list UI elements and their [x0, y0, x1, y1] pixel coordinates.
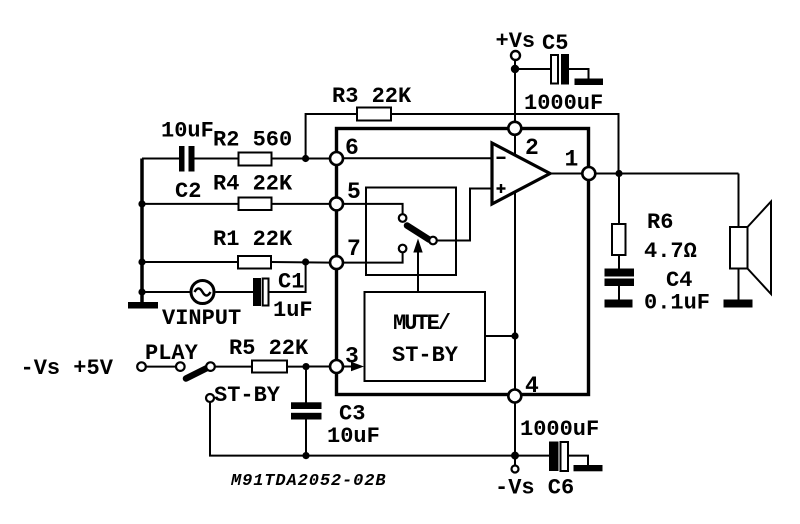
switch blade: [407, 226, 429, 240]
terminal +Vs: [511, 51, 520, 60]
node: R5/C3 junction: [302, 363, 309, 370]
arrow: pin 3 into mute box: [343, 366, 356, 368]
node: R4 tap on input bus: [138, 200, 145, 207]
pin 1: [582, 167, 595, 180]
wire: VINPUT to C1: [216, 291, 254, 293]
svg-text:+Vs: +Vs: [496, 29, 536, 54]
svg-text:ST-BY: ST-BY: [214, 383, 281, 408]
wire: to C5: [515, 68, 551, 70]
wire: R3 to output node: [391, 114, 619, 174]
svg-text:1uF: 1uF: [273, 298, 313, 323]
terminal -Vs +5V: [137, 362, 146, 371]
svg-text:PLAY: PLAY: [145, 341, 199, 366]
svg-text:R1 22K: R1 22K: [213, 227, 293, 252]
wire: R6 to C4: [618, 255, 620, 269]
wire: C4 to ground: [618, 286, 620, 300]
resistor R1 22K: [238, 256, 271, 269]
svg-text:C1: C1: [278, 270, 304, 295]
resistor R4 22K: [239, 198, 272, 211]
svg-text:C5: C5: [542, 31, 568, 56]
capacitor C1 1uF: [263, 279, 269, 306]
wire: left input bus vertical: [140, 159, 144, 303]
switch upper contact: [399, 214, 407, 222]
wire: R4 to pin 5: [272, 203, 332, 205]
svg-text:6: 6: [345, 135, 359, 161]
wire: bus to VINPUT: [142, 291, 191, 293]
wire: lower contact to pin 7: [343, 253, 403, 263]
switch PLAY blade: [186, 368, 208, 379]
wire: op-amp output to pin 1: [550, 173, 583, 175]
svg-text:5: 5: [347, 179, 361, 205]
wire: pin 1 to speaker: [595, 173, 739, 175]
wire: C1 branch: [269, 262, 306, 292]
svg-text:4: 4: [525, 373, 539, 399]
capacitor C2 10uF: [179, 146, 185, 172]
switch PLAY pivot contact: [176, 362, 185, 371]
wire: +Vs stem: [514, 60, 516, 70]
wire: R5 junction to pin 3: [306, 366, 331, 368]
svg-text:10uF: 10uF: [327, 424, 380, 449]
wire: ST-BY down and bottom rail: [210, 402, 549, 456]
wire: C3 to bottom rail: [305, 420, 307, 456]
resistor R3 22K: [357, 108, 391, 121]
wire: bus to R1: [142, 261, 238, 263]
node: R2/R3/pin6 junction: [302, 155, 309, 162]
ground (C6): [574, 465, 603, 471]
switch box: [366, 188, 456, 276]
arrow: mute control to switch: [417, 251, 419, 292]
svg-text:R4 22K: R4 22K: [213, 172, 293, 197]
MUTE/ST-BY box: [365, 292, 486, 381]
svg-text:C2: C2: [175, 179, 201, 204]
capacitor C6 1000uF: [549, 442, 559, 472]
pin 3: [330, 360, 343, 373]
wire: R3 branch up: [306, 114, 357, 159]
node: VINPUT tap on bus: [138, 288, 145, 295]
svg-text:2: 2: [525, 135, 539, 161]
resistor R5 22K: [252, 361, 287, 373]
svg-text:-Vs C6: -Vs C6: [495, 476, 574, 501]
pin 7: [330, 256, 343, 269]
source VINPUT: [191, 281, 214, 304]
node: R6 junction: [615, 170, 622, 177]
svg-text:M91TDA2052-02B: M91TDA2052-02B: [230, 472, 386, 491]
svg-text:C4: C4: [666, 268, 692, 293]
svg-text:-Vs +5V: -Vs +5V: [21, 356, 114, 381]
wire: switch to R5: [215, 366, 252, 368]
wire: C2 to R2: [195, 158, 239, 160]
node: R1 tap on input bus: [138, 258, 145, 265]
resistor R6 4.7ohm: [612, 224, 626, 255]
svg-text:VINPUT: VINPUT: [162, 306, 241, 331]
terminal ST-BY: [206, 394, 214, 402]
wire: blade to non-inverting input: [437, 189, 492, 241]
resistor R2 560: [239, 153, 272, 166]
svg-text:1: 1: [565, 146, 579, 172]
node: mute box tap: [511, 332, 518, 339]
wire: pin 2 down (above op-amp): [514, 134, 516, 156]
wire: speaker to ground: [738, 269, 740, 301]
IC box U1 TDA2052: [337, 129, 589, 395]
speaker LS1: [730, 227, 748, 269]
wire: mute box to rail: [485, 335, 515, 337]
svg-text:ST-BY: ST-BY: [392, 343, 459, 368]
wire: R5 to pin 3: [287, 366, 306, 368]
capacitor C3 10uF: [291, 402, 322, 409]
svg-text:7: 7: [347, 236, 361, 262]
switch blade pivot: [429, 237, 437, 245]
wire: pin 2 down to pin 4: [514, 192, 516, 391]
ground (input): [128, 302, 158, 309]
svg-text:MUTE/: MUTE/: [393, 311, 451, 336]
wire: C2 left: [142, 158, 179, 160]
svg-text:R6: R6: [647, 210, 673, 235]
wire: -Vs stem: [514, 456, 516, 465]
svg-text:R2 560: R2 560: [213, 128, 292, 153]
pin 5: [330, 197, 343, 210]
wire: down to speaker: [738, 174, 740, 228]
node: +Vs / C5 junction: [511, 65, 519, 73]
wire: pin 6 to inverting input: [343, 157, 492, 159]
node: C3 bottom junction: [302, 452, 309, 459]
wire: bus to R4: [142, 203, 239, 205]
op-amp plus sign: [497, 187, 506, 189]
terminal -Vs: [512, 466, 519, 473]
wire: terminal to switch pivot: [146, 366, 176, 368]
ground (speaker): [724, 300, 753, 308]
svg-text:3: 3: [345, 343, 359, 369]
svg-text:10uF: 10uF: [161, 119, 214, 144]
svg-text:1000uF: 1000uF: [520, 417, 599, 442]
wire: +Vs down to pin 2: [514, 69, 516, 123]
wire: C5 to ground: [569, 69, 589, 79]
node: R1/C1/pin7 junction: [302, 258, 309, 265]
capacitor C5 1000uF: [551, 55, 558, 84]
op-amp A1: [492, 143, 550, 204]
pin 2: [508, 122, 521, 135]
op-amp minus sign: [497, 157, 506, 159]
svg-text:4.7Ω: 4.7Ω: [644, 239, 697, 264]
wire: down to R6: [618, 174, 620, 225]
wire: pin 4 down to rail: [514, 403, 516, 456]
pin 6: [330, 152, 343, 165]
wire: C6 to ground: [568, 456, 588, 466]
svg-text:1000uF: 1000uF: [524, 91, 603, 116]
wire: down to C3: [305, 367, 307, 404]
svg-text:R5 22K: R5 22K: [229, 336, 309, 361]
ground (C4): [605, 300, 633, 308]
wire: pin 5 to upper contact: [343, 204, 403, 214]
switch lower contact: [399, 245, 407, 253]
svg-text:R3 22K: R3 22K: [332, 84, 412, 109]
pin 4: [508, 390, 521, 403]
svg-text:0.1uF: 0.1uF: [644, 291, 710, 316]
capacitor C4 0.1uF: [605, 269, 635, 277]
ground (C5): [575, 79, 604, 86]
node: -Vs junction: [511, 452, 519, 460]
svg-text:C3: C3: [339, 402, 365, 427]
switch PLAY contact: [206, 362, 215, 371]
wire: R2 to pin 6: [272, 158, 332, 160]
wire: R1 to pin 7: [271, 261, 331, 264]
